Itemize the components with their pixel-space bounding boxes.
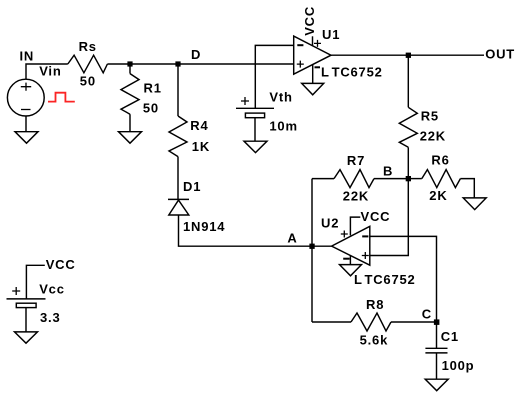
U2 power minus marker <box>343 258 349 260</box>
battery Vcc plus plate <box>7 298 46 300</box>
value LTC6752 (U1) <box>321 65 383 80</box>
label R6 <box>431 152 449 167</box>
wire U1 -input elbow to Vth <box>255 45 293 108</box>
label C1 <box>441 329 459 344</box>
label Vin <box>39 63 61 78</box>
svg-text:22K: 22K <box>343 189 369 204</box>
wire node C to C1 <box>436 322 438 348</box>
value 50 (Rs) <box>80 74 96 89</box>
wire node B to R6 <box>408 178 422 180</box>
svg-text:100p: 100p <box>442 358 475 373</box>
minus marker inside Vin <box>21 109 31 111</box>
node B label <box>383 164 393 179</box>
label U2 <box>321 216 339 231</box>
wire R8 to node C <box>391 321 437 323</box>
VCC label rotated (U1) <box>302 6 317 36</box>
svg-text:B: B <box>383 164 393 179</box>
U2 VCC stub <box>350 217 360 235</box>
value 2K <box>429 188 447 203</box>
label R7 <box>347 153 365 168</box>
wire VCC elbow to battery <box>26 265 44 299</box>
junction at OUT/R5 <box>406 53 411 58</box>
svg-text:Vin: Vin <box>39 63 61 78</box>
svg-text:VCC: VCC <box>302 6 317 36</box>
battery Vth plus plate <box>236 107 274 109</box>
wire Vth to ground <box>254 118 256 142</box>
resistor R8 <box>351 313 391 331</box>
wire D to R4 <box>177 64 179 116</box>
wire Rs to U1 +input (node D) <box>107 63 294 65</box>
value 10m <box>269 118 297 133</box>
svg-text:R5: R5 <box>421 108 439 123</box>
ground under U2 <box>340 265 362 276</box>
svg-text:2K: 2K <box>429 188 447 203</box>
U1 input minus marker <box>297 44 303 46</box>
U2 input minus marker <box>362 235 368 237</box>
value 5.6k <box>360 332 389 347</box>
svg-text:3.3: 3.3 <box>40 310 60 325</box>
svg-text:1N914: 1N914 <box>183 219 225 234</box>
svg-text:C1: C1 <box>441 329 459 344</box>
svg-text:Rs: Rs <box>79 39 97 54</box>
svg-text:TC6752: TC6752 <box>365 272 416 287</box>
value 50 (R1) <box>143 100 159 115</box>
svg-text:D: D <box>191 47 201 62</box>
resistor R7 <box>334 170 374 188</box>
label Vth <box>269 90 292 105</box>
U2 input plus marker <box>362 252 369 259</box>
wire vertical R7-A-R8 <box>311 179 313 322</box>
value 1N914 <box>183 219 225 234</box>
svg-text:1K: 1K <box>192 139 210 154</box>
junction at R1 top <box>127 61 132 66</box>
svg-text:R1: R1 <box>144 81 162 96</box>
U1 input plus marker <box>297 61 304 68</box>
label R4 <box>190 118 208 133</box>
label D1 <box>183 179 201 194</box>
U2 ground stub <box>349 255 351 264</box>
svg-text:OUT: OUT <box>485 47 515 62</box>
svg-text:22K: 22K <box>420 128 446 143</box>
svg-text:TC6752: TC6752 <box>332 65 383 80</box>
svg-text:U1: U1 <box>322 27 340 42</box>
wire A elbow to R8 <box>312 321 351 323</box>
U1 VCC stub <box>312 36 314 45</box>
wire U2 plus input to node B vertical <box>370 179 409 256</box>
capacitor C1 top plate <box>425 347 447 349</box>
svg-text:VCC: VCC <box>361 209 391 224</box>
svg-text:Vcc: Vcc <box>39 282 65 297</box>
plus marker Vth <box>241 97 249 105</box>
wire R7 elbow to node B <box>312 178 334 180</box>
wire IN elbow to Rs <box>26 64 68 80</box>
value 1K <box>192 139 210 154</box>
wire U2 minus input to node C vertical <box>370 236 437 322</box>
ground under U1 <box>302 83 324 94</box>
resistor R6 <box>422 170 461 188</box>
svg-text:C: C <box>422 307 432 322</box>
label Vcc <box>39 282 65 297</box>
U1 power plus marker <box>314 40 321 47</box>
diode D1 triangle <box>169 200 189 215</box>
junction at node C <box>434 319 440 325</box>
ground under Vcc <box>15 332 38 343</box>
resistor R5 <box>399 107 417 147</box>
value 100p <box>442 358 475 373</box>
plus marker inside Vin <box>21 83 31 91</box>
junction at node A <box>309 244 314 249</box>
svg-text:R7: R7 <box>347 153 365 168</box>
label R8 <box>366 297 384 312</box>
pulse waveform glyph (red) <box>48 93 75 102</box>
wire R5 to node B <box>407 147 409 178</box>
ground under R1 <box>119 132 142 144</box>
wire U2 output to node A <box>312 245 332 247</box>
resistor R4 <box>169 116 187 157</box>
battery Vcc minus plate <box>16 303 36 307</box>
U2 power plus marker <box>341 231 348 238</box>
svg-text:R4: R4 <box>190 118 208 133</box>
svg-text:R6: R6 <box>431 152 449 167</box>
wire U1 output to OUT <box>331 54 484 56</box>
op-amp U2 triangle <box>332 226 370 265</box>
svg-text:U2: U2 <box>321 216 339 231</box>
svg-text:VCC: VCC <box>46 257 76 272</box>
wire D to R1 <box>129 64 131 74</box>
node C label <box>422 307 432 322</box>
label U1 <box>322 27 340 42</box>
wire R6 to ground elbow <box>460 179 474 198</box>
svg-text:50: 50 <box>143 100 159 115</box>
battery Vth minus plate <box>245 113 264 118</box>
junction at node B <box>406 176 411 181</box>
svg-text:5.6k: 5.6k <box>360 332 389 347</box>
value LTC6752 (U2) <box>354 272 416 287</box>
value 22K (R7) <box>343 189 369 204</box>
voltage source V1 Vin circle <box>7 79 44 116</box>
wire Vin bottom to ground <box>25 116 27 132</box>
VCC label (U2) <box>361 209 391 224</box>
svg-text:L: L <box>321 65 330 80</box>
node IN label <box>20 48 35 63</box>
label R5 <box>421 108 439 123</box>
junction at node D branch <box>175 61 180 66</box>
wire OUT junction to R5 <box>407 55 409 107</box>
U1 power minus marker <box>315 66 321 68</box>
svg-text:D1: D1 <box>183 179 201 194</box>
svg-text:50: 50 <box>80 74 96 89</box>
label R1 <box>144 81 162 96</box>
svg-text:R8: R8 <box>366 297 384 312</box>
wire D1 anode down and right to node A <box>179 215 313 246</box>
svg-text:IN: IN <box>20 48 35 63</box>
svg-text:Vth: Vth <box>269 90 292 105</box>
ground under Vth <box>244 141 267 152</box>
capacitor C1 bottom plate <box>425 352 447 354</box>
svg-text:A: A <box>287 230 297 245</box>
node OUT label <box>485 47 515 62</box>
value 22K (R5) <box>420 128 446 143</box>
op-amp U1 triangle <box>294 36 331 74</box>
wire R7 to node B <box>374 178 408 180</box>
resistor R1 <box>121 74 139 115</box>
ground under C1 <box>425 379 448 391</box>
wire R1 to ground <box>129 114 131 132</box>
node D label <box>191 47 201 62</box>
diode D1 cathode bar <box>168 198 189 200</box>
ground under Vin <box>15 132 38 144</box>
node A label <box>287 230 297 245</box>
resistor Rs <box>68 55 108 73</box>
ground under R6 <box>463 198 486 210</box>
node VCC label (supply) <box>46 257 76 272</box>
U1 ground stub <box>312 65 314 84</box>
plus marker Vcc <box>12 287 20 295</box>
svg-text:L: L <box>354 272 363 287</box>
value 3.3 <box>40 310 60 325</box>
wire C1 to ground <box>436 353 438 379</box>
label Rs <box>79 39 97 54</box>
wire Vcc to ground <box>25 308 27 332</box>
wire R4 to D1 <box>177 157 179 200</box>
svg-text:10m: 10m <box>269 118 297 133</box>
